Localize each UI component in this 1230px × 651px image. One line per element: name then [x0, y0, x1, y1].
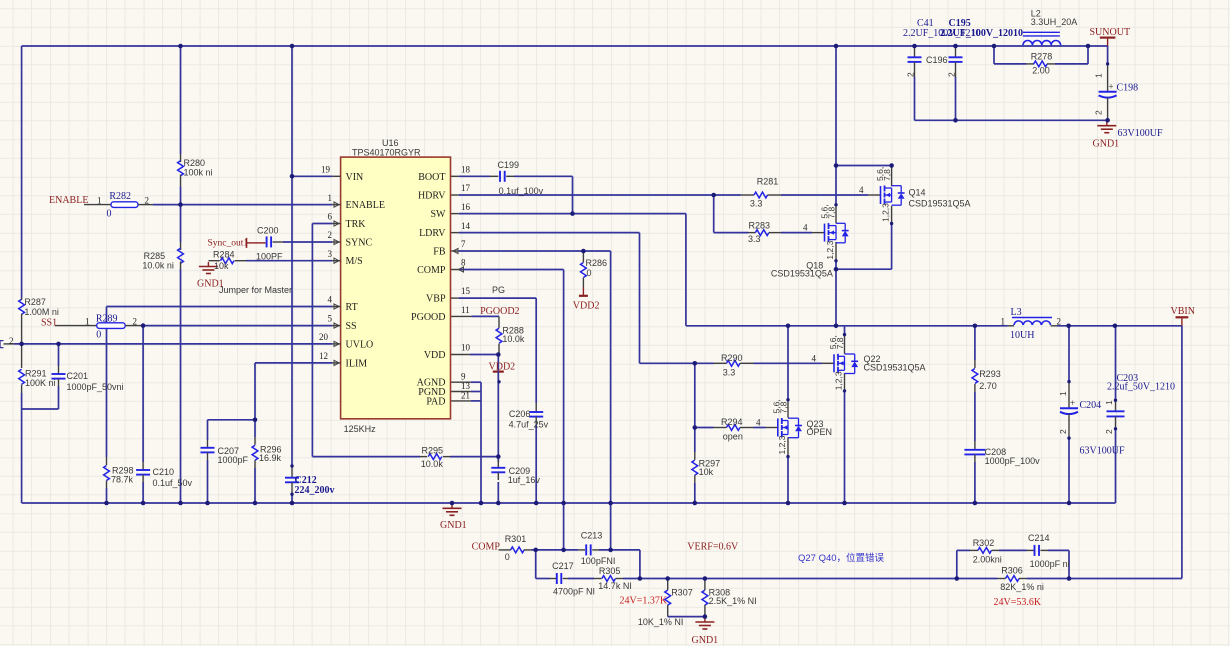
svg-text:17: 17: [461, 183, 471, 193]
svg-text:GND1: GND1: [440, 520, 467, 531]
svg-text:C213: C213: [581, 531, 603, 541]
svg-text:OPEN: OPEN: [807, 427, 833, 437]
svg-text:VIN: VIN: [346, 172, 364, 183]
svg-text:R284: R284: [213, 250, 235, 260]
svg-text:2: 2: [906, 72, 916, 77]
svg-text:2.00kni: 2.00kni: [973, 554, 1002, 564]
svg-text:PGOOD: PGOOD: [411, 312, 445, 323]
svg-text:24V=53.6K: 24V=53.6K: [994, 597, 1042, 608]
svg-text:Sync_out1: Sync_out1: [208, 239, 249, 249]
svg-text:C204: C204: [1080, 400, 1102, 411]
svg-text:1000pF: 1000pF: [218, 455, 249, 465]
svg-text:CSD19531Q5A: CSD19531Q5A: [771, 269, 833, 279]
svg-text:4: 4: [756, 418, 761, 428]
svg-text:3.3: 3.3: [748, 234, 761, 244]
svg-text:C196: C196: [926, 55, 948, 65]
svg-text:2: 2: [145, 196, 150, 206]
svg-text:10UH: 10UH: [1010, 330, 1034, 341]
svg-text:SW: SW: [431, 209, 447, 220]
svg-text:PAD: PAD: [426, 396, 445, 407]
svg-text:100PF: 100PF: [256, 251, 283, 261]
svg-text:2.2UF_100V_12010: 2.2UF_100V_12010: [940, 28, 1023, 39]
svg-text:1.00M ni: 1.00M ni: [24, 307, 59, 317]
svg-text:TPS40170RGYR: TPS40170RGYR: [352, 147, 421, 157]
svg-text:2.5K_1% NI: 2.5K_1% NI: [709, 596, 757, 606]
svg-text:4: 4: [328, 295, 333, 305]
svg-text:VDD: VDD: [424, 350, 446, 361]
svg-text:4: 4: [859, 185, 864, 195]
svg-text:Q14: Q14: [909, 188, 926, 198]
svg-text:CSD19531Q5A: CSD19531Q5A: [909, 199, 971, 209]
svg-text:63V100UF: 63V100UF: [1080, 446, 1125, 457]
svg-text:10.0k: 10.0k: [421, 459, 444, 469]
svg-text:1000pF_100v: 1000pF_100v: [985, 456, 1041, 466]
svg-text:2: 2: [328, 230, 333, 240]
svg-text:ENABLE: ENABLE: [346, 200, 385, 211]
svg-text:14.7k NI: 14.7k NI: [598, 581, 632, 591]
svg-text:4: 4: [803, 223, 808, 233]
svg-text:HDRV: HDRV: [418, 191, 446, 202]
svg-text:C206: C206: [509, 409, 531, 419]
svg-text:3.3: 3.3: [750, 199, 763, 209]
svg-text:RT: RT: [346, 302, 358, 313]
svg-text:100pFNI: 100pFNI: [581, 556, 616, 566]
svg-text:125KHz: 125KHz: [344, 424, 377, 434]
svg-text:16.9k: 16.9k: [259, 453, 282, 463]
svg-text:9: 9: [461, 372, 466, 382]
svg-text:C214: C214: [1028, 533, 1050, 543]
svg-text:1000pF_50vni: 1000pF_50vni: [67, 382, 124, 392]
svg-text:C198: C198: [1117, 83, 1139, 94]
svg-text:8: 8: [461, 258, 466, 268]
svg-text:1: 1: [1001, 317, 1006, 327]
svg-text:11: 11: [461, 305, 470, 315]
svg-text:12: 12: [319, 351, 328, 361]
svg-text:C195: C195: [949, 18, 971, 29]
svg-text:19: 19: [321, 165, 331, 175]
svg-text:2: 2: [133, 317, 138, 327]
svg-text:COMP: COMP: [472, 541, 501, 552]
svg-text:SS1: SS1: [41, 317, 57, 328]
svg-text:R294: R294: [721, 417, 743, 427]
svg-text:R291: R291: [25, 369, 47, 379]
svg-text:1000pF ni: 1000pF ni: [1030, 559, 1070, 569]
svg-text:VERF=0.6V: VERF=0.6V: [687, 541, 739, 552]
svg-text:R285: R285: [144, 251, 166, 261]
svg-text:R307: R307: [671, 588, 693, 598]
svg-text:1,2,3: 1,2,3: [777, 435, 787, 454]
svg-text:2: 2: [1104, 429, 1114, 434]
svg-text:2: 2: [947, 72, 957, 77]
svg-text:Q27 Q40，位置错误: Q27 Q40，位置错误: [798, 552, 885, 564]
svg-text:2: 2: [1058, 429, 1068, 434]
svg-text:C200: C200: [257, 226, 279, 236]
svg-text:C199: C199: [498, 160, 520, 170]
svg-text:7,8: 7,8: [826, 207, 836, 219]
svg-text:1: 1: [1058, 391, 1068, 396]
svg-text:1,2,3: 1,2,3: [881, 203, 891, 222]
svg-text:15: 15: [461, 286, 471, 296]
svg-text:SYNC: SYNC: [346, 238, 373, 249]
svg-text:10.0k: 10.0k: [502, 334, 525, 344]
svg-text:1: 1: [1104, 400, 1114, 405]
svg-text:VDD2: VDD2: [573, 301, 600, 312]
svg-text:BOOT: BOOT: [418, 172, 445, 183]
svg-text:1,2,3: 1,2,3: [825, 240, 835, 259]
svg-text:C201: C201: [67, 371, 89, 381]
svg-text:Jumper for Master: Jumper for Master: [219, 285, 292, 295]
svg-text:R282: R282: [109, 191, 131, 202]
svg-text:7: 7: [461, 239, 466, 249]
svg-text:0: 0: [96, 330, 101, 341]
svg-text:open: open: [723, 431, 743, 441]
svg-text:3.3UH_20A: 3.3UH_20A: [1031, 17, 1078, 27]
svg-text:CSD19531Q5A: CSD19531Q5A: [864, 363, 926, 373]
svg-text:4.7uf_25v: 4.7uf_25v: [509, 420, 549, 430]
svg-text:1,2,3: 1,2,3: [834, 371, 844, 390]
svg-text:3.3: 3.3: [723, 367, 736, 377]
svg-text:R293: R293: [979, 369, 1001, 379]
svg-text:TRK: TRK: [346, 219, 367, 230]
svg-text:M/S: M/S: [346, 256, 363, 267]
svg-text:ENABLE: ENABLE: [49, 195, 88, 206]
svg-text:100K ni: 100K ni: [25, 378, 56, 388]
svg-text:GND1: GND1: [692, 635, 719, 646]
svg-text:20: 20: [319, 332, 329, 342]
svg-text:0: 0: [505, 552, 510, 562]
svg-text:4700pF NI: 4700pF NI: [553, 587, 595, 597]
svg-text:1: 1: [85, 317, 90, 327]
svg-text:78.7k: 78.7k: [111, 474, 134, 484]
svg-text:R301: R301: [505, 534, 527, 544]
svg-text:C217: C217: [552, 561, 574, 571]
svg-text:0: 0: [107, 209, 112, 220]
svg-text:1: 1: [328, 193, 333, 203]
svg-text:LDRV: LDRV: [419, 228, 446, 239]
svg-text:6: 6: [328, 212, 333, 222]
svg-text:7,8: 7,8: [778, 401, 788, 413]
svg-text:0.1uf_50v: 0.1uf_50v: [153, 478, 193, 488]
svg-text:2.2uf_50V_1210: 2.2uf_50V_1210: [1107, 382, 1175, 393]
svg-text:VDD2: VDD2: [489, 362, 516, 373]
svg-text:224_200v: 224_200v: [295, 485, 335, 496]
svg-text:R287: R287: [24, 297, 46, 307]
svg-text:21: 21: [461, 391, 470, 401]
svg-text:10: 10: [461, 343, 471, 353]
svg-text:13: 13: [461, 381, 471, 391]
svg-text:1: 1: [1094, 73, 1104, 78]
svg-text:SUNOUT: SUNOUT: [1090, 27, 1131, 38]
svg-text:R306: R306: [1001, 566, 1023, 576]
svg-text:10k: 10k: [214, 261, 229, 271]
svg-text:18: 18: [461, 165, 471, 175]
svg-text:COMP: COMP: [417, 265, 446, 276]
svg-text:0: 0: [587, 268, 592, 278]
svg-text:UVLO: UVLO: [346, 339, 374, 350]
svg-text:0.1uf_100v: 0.1uf_100v: [499, 186, 544, 196]
svg-text:10K_1% NI: 10K_1% NI: [638, 617, 684, 627]
svg-text:7,8: 7,8: [882, 169, 892, 181]
svg-text:24V=1.37K: 24V=1.37K: [620, 596, 668, 607]
svg-text:SS: SS: [346, 321, 357, 332]
svg-text:82K_1% ni: 82K_1% ni: [1000, 582, 1044, 592]
svg-text:4: 4: [812, 354, 817, 364]
svg-text:R302: R302: [973, 538, 995, 548]
svg-text:R278: R278: [1031, 52, 1053, 62]
svg-text:FB: FB: [433, 247, 446, 258]
svg-text:14: 14: [461, 221, 471, 231]
svg-text:10.0k ni: 10.0k ni: [142, 260, 174, 270]
svg-text:63V100UF: 63V100UF: [1118, 128, 1163, 139]
svg-text:2: 2: [1094, 110, 1104, 115]
svg-text:R283: R283: [749, 220, 771, 230]
svg-text:2.00: 2.00: [1032, 66, 1050, 76]
svg-text:3: 3: [328, 249, 333, 259]
svg-text:R281: R281: [757, 177, 779, 187]
svg-text:R289: R289: [96, 314, 118, 325]
svg-text:C210: C210: [153, 467, 175, 477]
svg-text:100k ni: 100k ni: [184, 167, 213, 177]
svg-text:+: +: [1109, 82, 1114, 92]
svg-text:L3: L3: [1011, 307, 1022, 318]
svg-text:PG: PG: [492, 285, 505, 295]
svg-text:+: +: [1070, 398, 1075, 408]
svg-text:2.70: 2.70: [979, 381, 997, 391]
svg-text:16: 16: [461, 202, 471, 212]
svg-text:R286: R286: [586, 258, 608, 268]
svg-text:2: 2: [9, 336, 14, 346]
svg-text:1uf_16v: 1uf_16v: [508, 475, 541, 485]
svg-text:PGOOD2: PGOOD2: [480, 306, 519, 317]
svg-text:ILIM: ILIM: [346, 358, 368, 369]
svg-text:C41: C41: [917, 18, 934, 29]
svg-text:2: 2: [1057, 317, 1062, 327]
svg-text:5: 5: [328, 314, 333, 324]
svg-text:R305: R305: [599, 566, 621, 576]
svg-text:R290: R290: [721, 353, 743, 363]
svg-text:R295: R295: [422, 446, 444, 456]
svg-text:10k: 10k: [699, 467, 714, 477]
svg-text:7,8: 7,8: [835, 337, 845, 349]
svg-text:VBIN: VBIN: [1171, 306, 1195, 317]
svg-text:1: 1: [97, 196, 102, 206]
svg-text:VBP: VBP: [426, 294, 446, 305]
svg-text:GND1: GND1: [1093, 138, 1120, 149]
